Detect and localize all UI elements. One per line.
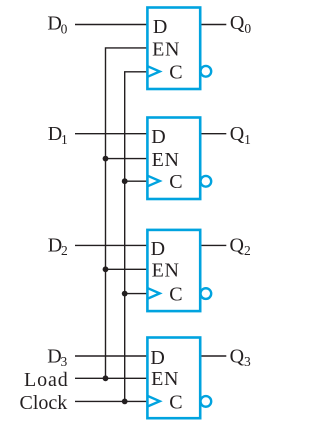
svg-text:Q2: Q2 [230, 234, 251, 258]
svg-text:EN: EN [151, 368, 179, 390]
svg-text:D3: D3 [47, 345, 67, 369]
svg-text:D1: D1 [48, 123, 68, 147]
svg-text:EN: EN [152, 149, 180, 171]
svg-text:D2: D2 [48, 234, 68, 258]
svg-text:EN: EN [152, 260, 180, 282]
svg-text:Clock: Clock [20, 392, 68, 414]
svg-text:D: D [153, 16, 167, 38]
svg-text:C: C [169, 171, 182, 193]
svg-text:Q1: Q1 [230, 123, 251, 147]
svg-text:C: C [169, 391, 182, 413]
svg-text:D: D [151, 126, 165, 148]
svg-text:D0: D0 [47, 13, 67, 37]
svg-text:D: D [151, 238, 165, 260]
svg-text:D: D [150, 347, 164, 369]
svg-text:C: C [169, 62, 182, 84]
svg-text:C: C [169, 284, 182, 306]
svg-text:Q0: Q0 [230, 12, 251, 36]
svg-text:EN: EN [152, 39, 180, 61]
svg-text:Load: Load [24, 369, 69, 391]
svg-text:Q3: Q3 [230, 345, 251, 369]
